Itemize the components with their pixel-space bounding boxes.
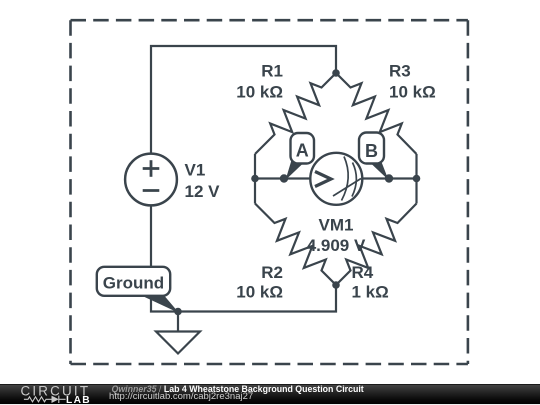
svg-text:10 kΩ: 10 kΩ: [236, 83, 283, 102]
svg-text:B: B: [365, 141, 378, 161]
svg-text:10 kΩ: 10 kΩ: [389, 83, 436, 102]
svg-text:R4: R4: [352, 263, 374, 282]
svg-text:R3: R3: [389, 62, 411, 81]
svg-text:R1: R1: [261, 62, 283, 81]
svg-text:10 kΩ: 10 kΩ: [236, 283, 283, 302]
svg-text:R2: R2: [261, 263, 283, 282]
svg-text:4.909 V: 4.909 V: [307, 236, 366, 255]
svg-text:VM1: VM1: [319, 216, 354, 235]
svg-text:1 kΩ: 1 kΩ: [352, 283, 389, 302]
svg-text:Ground: Ground: [103, 273, 164, 292]
svg-text:LAB: LAB: [66, 395, 91, 405]
svg-text:V1: V1: [185, 161, 206, 180]
svg-text:12 V: 12 V: [185, 182, 221, 201]
svg-text:A: A: [296, 140, 309, 160]
